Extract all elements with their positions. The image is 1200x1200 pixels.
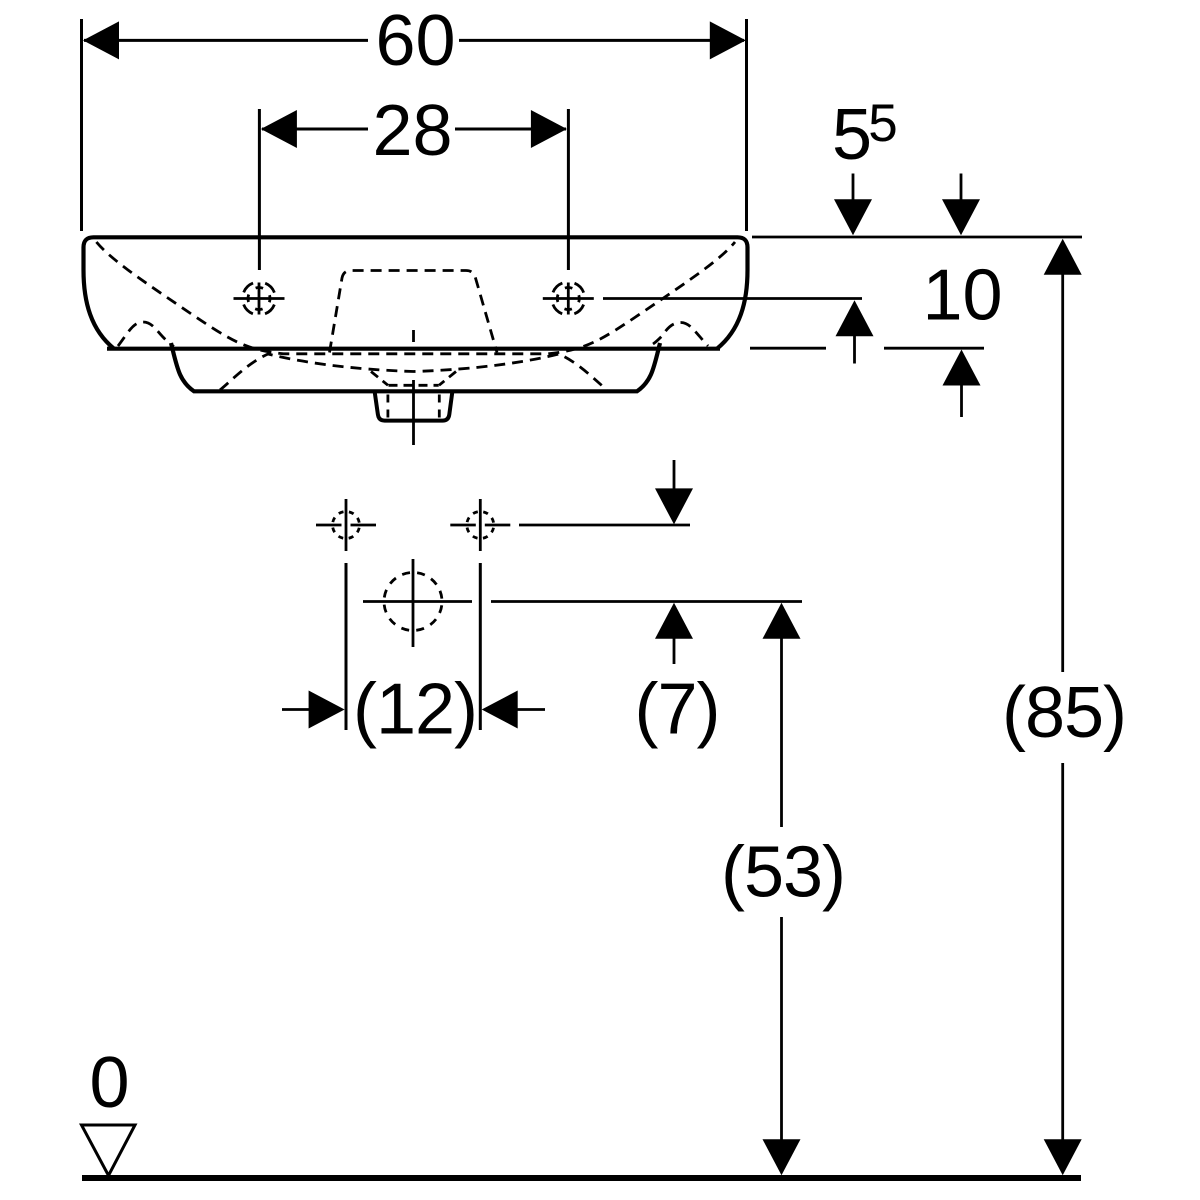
- dim (85): lower down-arrowhead: [1044, 1139, 1082, 1175]
- drain hole crosshair vertical: [412, 559, 415, 647]
- tap hole leader line right: [603, 297, 862, 300]
- svg-text:(53): (53): [721, 833, 845, 913]
- dim 60: dimension line: [84, 39, 744, 42]
- dim (53): dimension line (two segments): [780, 637, 783, 1141]
- tap hole left crosshair horizontal: [234, 297, 285, 300]
- dim 28: dimension line: [262, 128, 566, 131]
- drain trap: [375, 392, 453, 421]
- dim 28: right extension line: [567, 109, 570, 270]
- tap hole left: dashed circle: [243, 282, 276, 315]
- dim (7): upper down-arrowhead: [655, 488, 693, 524]
- svg-text:60: 60: [375, 1, 455, 81]
- drain hole: dashed circle: [384, 573, 442, 631]
- dim (7): lower up-arrow stem: [673, 637, 676, 664]
- dim 5.5: lower up-arrow stem: [853, 334, 856, 364]
- dim 5.5: lower up-arrowhead: [836, 300, 874, 336]
- dashed inner rim curve: [96, 242, 735, 354]
- dim 60: right extension line: [745, 19, 748, 231]
- dashed drain funnel left slant: [371, 372, 388, 386]
- svg-text:10: 10: [922, 256, 1002, 336]
- small tap hole right crosshair horizontal: [450, 524, 510, 527]
- small tap hole right: dashed circle: [467, 512, 494, 539]
- small tap hole left crosshair horizontal: [316, 524, 376, 527]
- dim 5.5: upper down-arrow stem: [852, 174, 855, 202]
- dim (12): left arrow tail: [282, 708, 309, 711]
- dim (12): right arrowhead: [482, 691, 518, 729]
- dashed trap right vertical: [438, 395, 441, 419]
- dashed drain funnel bottom: [389, 384, 439, 387]
- basin tier1 bottom edge: [107, 347, 720, 351]
- dim 60: left arrowhead: [83, 21, 119, 59]
- tap hole right: inner tick circle: [557, 288, 579, 310]
- svg-text:5: 5: [832, 95, 872, 175]
- dashed bowl bottom wavy curve: [220, 354, 607, 390]
- dim 5.5: upper down-arrowhead: [834, 199, 872, 235]
- dim 10: lower up-arrow stem: [960, 383, 963, 417]
- dim 10: upper down-arrow stem: [960, 174, 963, 202]
- dim (85): upper up-arrowhead: [1044, 239, 1082, 275]
- dashed tap deck trapezoid: [330, 271, 498, 353]
- small tap hole left crosshair vertical: [345, 499, 348, 551]
- dim 28: left arrowhead: [261, 110, 297, 148]
- floor line: [82, 1175, 1081, 1181]
- dim 10: lower up-arrowhead: [943, 350, 981, 386]
- basin apron (tier2): [171, 343, 660, 391]
- dim (12): right arrow tail: [517, 708, 545, 711]
- tap hole right: dashed circle: [552, 282, 585, 315]
- dashed right bump: [653, 323, 708, 347]
- dashed left bump: [118, 322, 174, 347]
- dashed drain funnel right slant: [439, 372, 456, 386]
- svg-text:(12): (12): [353, 670, 477, 750]
- drain hole crosshair horizontal: [363, 600, 472, 603]
- small tap hole left: dashed circle: [333, 512, 360, 539]
- svg-text:28: 28: [372, 91, 452, 171]
- small tap holes leader line right: [519, 524, 690, 527]
- dim 28: right arrowhead: [531, 110, 567, 148]
- dim 10: upper down-arrowhead: [942, 199, 980, 235]
- dim (53): lower down-arrowhead: [763, 1139, 801, 1175]
- tap hole right crosshair horizontal: [543, 297, 594, 300]
- drain center line: [412, 330, 415, 445]
- dim (53): upper up-arrowhead: [763, 603, 801, 639]
- dim (12): right extension line: [479, 563, 482, 730]
- dim 28: left extension line: [258, 109, 261, 270]
- datum triangle: [82, 1125, 136, 1176]
- tap hole right crosshair vertical: [567, 283, 570, 315]
- apron leader line right (two segments): [750, 347, 984, 350]
- tap hole left: inner tick circle: [248, 288, 270, 310]
- dim (7): lower up-arrowhead: [655, 603, 693, 639]
- tap hole left crosshair vertical: [258, 283, 261, 315]
- svg-text:(7): (7): [635, 670, 720, 750]
- dim 60: right arrowhead: [710, 21, 746, 59]
- dim (85): dimension line (two segments): [1061, 271, 1064, 1141]
- dim (7): upper down-arrow stem: [673, 460, 676, 492]
- svg-text:(85): (85): [1002, 673, 1126, 753]
- dim 60: left extension line: [80, 19, 83, 231]
- basin outer rim outline: [84, 237, 748, 348]
- svg-text:5: 5: [868, 94, 897, 153]
- dim (12): left arrowhead: [309, 691, 345, 729]
- svg-text:0: 0: [89, 1043, 129, 1123]
- dashed trap left vertical: [386, 395, 389, 419]
- drain hole leader line right: [491, 600, 802, 603]
- small tap hole right crosshair vertical: [479, 499, 482, 551]
- top rim leader line right: [752, 236, 1082, 239]
- dim (12): left extension line: [345, 563, 348, 730]
